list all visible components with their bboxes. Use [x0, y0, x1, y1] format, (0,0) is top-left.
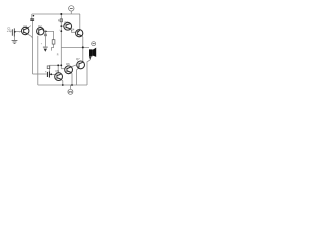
wire center vertical bus x=61.3 [60, 14, 62, 69]
junction dot feedback/QA collector [57, 64, 59, 66]
wire resistor chain lower [51, 44, 53, 51]
svg-text:+: + [19, 32, 21, 34]
ground input (3-bar) [12, 40, 18, 43]
resistor R4 box on feedback drop [47, 66, 50, 69]
resistor R3 box on collector chain [52, 40, 55, 44]
transistor Q1 [22, 27, 29, 34]
wire input coupling cap to Q1 base [14, 30, 21, 32]
svg-text:Q7: Q7 [76, 57, 80, 61]
junction dot input cap/ground [14, 31, 15, 32]
wire speaker return to ground rail [87, 60, 90, 85]
transistor Q5 (driver low) [55, 73, 63, 81]
svg-text:Q5: Q5 [55, 69, 59, 73]
wire top supply rail [32, 13, 80, 15]
wire battery negative terminal stub [69, 85, 71, 89]
wire x=49.5 drop to cap CB [49, 65, 51, 71]
battery negative terminal circle [68, 89, 73, 94]
svg-text:+: + [45, 71, 47, 74]
resistor R1 on left drop (cap style blob) [30, 19, 34, 20]
speaker LS1 [89, 48, 96, 57]
wire Q2 emitter drop x=37.8 [37, 36, 39, 85]
wire input ground stub [14, 37, 16, 41]
capacitor C3 on Q2 collector to ground [44, 31, 47, 46]
junction dot QA emitter at ground rail [62, 84, 64, 86]
wire output node to speaker [61, 46, 89, 48]
wire Q5 emitter drop [77, 68, 79, 85]
junction dot output node at speaker wire [82, 46, 84, 48]
svg-text:R: R [58, 19, 60, 23]
wire QA base from cap CB [49, 73, 55, 75]
svg-text:Q1: Q1 [23, 24, 27, 28]
svg-text:Q2: Q2 [38, 24, 42, 28]
wire bottom ground rail [38, 84, 87, 86]
junction dot Q3 base node [60, 25, 62, 27]
wire QA emitter drop [61, 79, 63, 85]
svg-text:Q4: Q4 [71, 28, 75, 32]
ground arrow under C3 [43, 46, 48, 48]
wire Q3 base stub [61, 25, 64, 27]
junction dot Q1 collector arc [27, 27, 28, 28]
junction dot Q2 collector node [45, 31, 47, 33]
wire QA collector drop [57, 65, 59, 73]
wire Q1 collector diagonal [27, 26, 30, 29]
wire battery positive terminal stub [70, 11, 72, 14]
wire QB base stub [61, 68, 65, 70]
junction dot QB emitter at ground rail [71, 84, 73, 86]
battery positive terminal circle [69, 6, 74, 11]
svg-text:Q3: Q3 [64, 20, 68, 24]
speaker return arrow [89, 56, 92, 60]
wire left rail drop from corner [31, 14, 33, 19]
transistor Q6 [65, 66, 73, 74]
svg-text:+: + [59, 30, 61, 32]
junction dot center bus at rail [60, 13, 62, 15]
svg-text:+1µ: +1µ [7, 29, 12, 33]
wire base feed of output pair y=74 [33, 73, 47, 75]
transistor Q2 [37, 28, 44, 35]
transistor Q7 (output) [77, 61, 85, 69]
capacitor C1 input electrolytic [12, 28, 14, 36]
svg-text:R: R [57, 54, 59, 57]
wire Q1 emitter [27, 34, 32, 38]
svg-text:+: + [41, 43, 43, 46]
resistor R2 on center bus [60, 19, 62, 22]
wire feedback line y=65.3 [50, 64, 62, 66]
wire vertical feed x=32.6 down to y=74 [32, 21, 34, 75]
speaker terminal circle [92, 42, 96, 46]
junction dot near top-left corner [33, 15, 35, 17]
wire Q3 emitter to Q4 base [70, 29, 75, 32]
junction dot QA base node [50, 73, 52, 75]
wire QB collector to Q5 base [71, 65, 77, 67]
wire QB emitter drop [70, 73, 73, 86]
wire right rail drop to Q4 collector [79, 14, 81, 30]
wire Q4 emitter drop x=82.8 [82, 36, 83, 62]
junction dot feedback/bus [60, 64, 62, 66]
svg-text:Q6: Q6 [66, 62, 70, 66]
capacitor C2 to QA base [47, 71, 49, 77]
transistor Q4 [76, 30, 83, 37]
wire Q2 collector to resistor chain [44, 31, 54, 39]
junction dot center bus mid [60, 30, 62, 32]
transistor Q3 [64, 22, 72, 30]
